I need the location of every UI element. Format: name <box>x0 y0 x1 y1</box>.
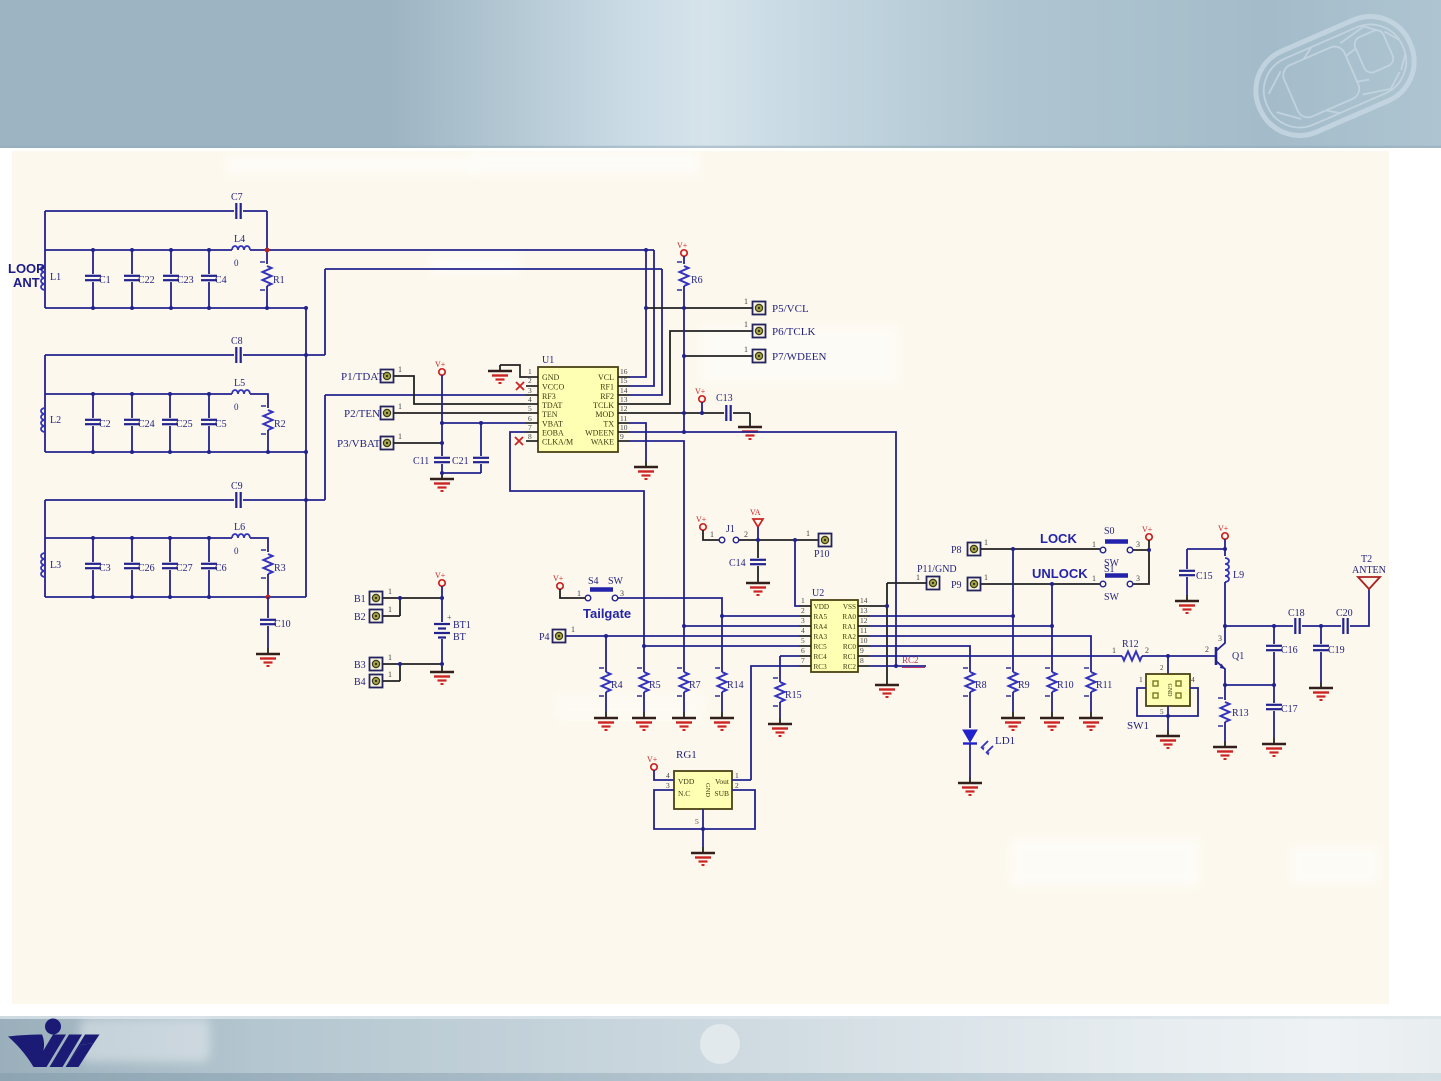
svg-text:Q1: Q1 <box>1232 651 1244 662</box>
svg-text:1: 1 <box>1092 540 1096 549</box>
wire RC1 row to R12 <box>870 655 1122 657</box>
port P10 <box>819 534 832 547</box>
svg-text:C27: C27 <box>176 563 193 574</box>
wire collector row to antenna <box>1225 589 1369 626</box>
capacitor C21 <box>480 423 482 456</box>
power V+ above R6 <box>681 250 687 256</box>
schematic paper <box>12 151 1389 1004</box>
svg-text:2: 2 <box>1205 645 1209 654</box>
wire pin1 GND <box>500 365 526 377</box>
svg-text:VCL: VCL <box>598 373 614 382</box>
capacitor C18 <box>1295 618 1299 634</box>
svg-text:V+: V+ <box>553 574 564 583</box>
svg-text:S1: S1 <box>1104 564 1115 575</box>
svg-text:P5/VCL: P5/VCL <box>772 303 809 315</box>
port P4 <box>553 630 566 643</box>
capacitor C27 <box>169 538 171 562</box>
port B3 <box>370 658 383 671</box>
wire RG1 Vout riser <box>732 779 751 781</box>
ground <box>1309 682 1333 700</box>
svg-text:ANT: ANT <box>13 275 40 290</box>
svg-text:RA2: RA2 <box>842 633 856 641</box>
svg-text:P3/VBAT: P3/VBAT <box>337 438 381 450</box>
svg-text:GND: GND <box>704 783 711 797</box>
wire battery top <box>383 598 442 616</box>
wire RG1 SUB loop <box>703 790 755 829</box>
svg-text:2: 2 <box>801 606 805 615</box>
capacitor C20 <box>1343 618 1347 634</box>
power V+ output <box>1222 533 1228 539</box>
svg-text:VCCO: VCCO <box>542 383 564 392</box>
svg-text:LD1: LD1 <box>995 735 1015 747</box>
port P1/TDAT <box>381 370 394 383</box>
svg-text:R13: R13 <box>1232 708 1249 719</box>
svg-text:C9: C9 <box>231 481 243 492</box>
wire group3 bottom <box>45 596 306 598</box>
wire P1 to pin4 <box>394 376 526 404</box>
svg-text:C11: C11 <box>413 456 429 467</box>
wire C11/C21 join <box>442 472 481 474</box>
power VA <box>753 519 763 527</box>
port P2/TEN <box>381 407 394 420</box>
svg-text:1: 1 <box>528 367 532 376</box>
svg-text:RA4: RA4 <box>814 623 828 631</box>
resistor R9 <box>1006 668 1018 696</box>
inductor L6 <box>232 534 250 538</box>
wire group2 bottom <box>45 451 306 453</box>
svg-text:2: 2 <box>735 781 739 790</box>
svg-text:C6: C6 <box>215 563 227 574</box>
capacitor C4 <box>208 250 210 274</box>
capacitor C7 <box>236 203 240 219</box>
wire group3 top <box>45 499 325 501</box>
svg-text:WAKE: WAKE <box>591 438 614 447</box>
svg-text:RA3: RA3 <box>814 633 828 641</box>
svg-text:3: 3 <box>801 616 805 625</box>
wire VBAT row <box>442 422 526 424</box>
jumper J1 <box>719 537 725 543</box>
footer band <box>0 1016 1441 1081</box>
svg-text:RC0: RC0 <box>843 643 857 651</box>
port P6/TCLK <box>753 325 766 338</box>
svg-text:B1: B1 <box>354 594 366 605</box>
svg-text:9: 9 <box>860 646 864 655</box>
svg-text:C13: C13 <box>716 393 733 404</box>
svg-text:C18: C18 <box>1288 608 1305 619</box>
wire pin16 VCL riser <box>630 250 646 377</box>
resistor R15 <box>779 656 781 682</box>
svg-text:3: 3 <box>666 781 670 790</box>
wire RG1 N.C loop <box>654 790 703 829</box>
svg-text:12: 12 <box>620 404 628 413</box>
svg-text:S4: S4 <box>588 576 599 587</box>
capacitor C24 <box>131 394 133 418</box>
svg-text:5: 5 <box>528 404 532 413</box>
ground <box>1001 712 1025 730</box>
power V+ J1 <box>700 524 706 530</box>
U2 pin stubs <box>799 606 870 666</box>
svg-text:UNLOCK: UNLOCK <box>1032 566 1088 581</box>
ground C13 <box>738 421 762 439</box>
svg-text:1: 1 <box>744 297 748 306</box>
svg-text:L1: L1 <box>50 272 61 283</box>
port B1 <box>370 592 383 605</box>
svg-text:TX: TX <box>603 420 614 429</box>
wire RF2 riser x325 <box>324 269 326 355</box>
svg-text:4: 4 <box>528 395 532 404</box>
wire V+ stem <box>441 375 443 456</box>
svg-text:3: 3 <box>1218 634 1222 643</box>
ground C14 <box>746 577 770 595</box>
svg-text:7: 7 <box>801 656 805 665</box>
wire group1 mid <box>45 249 654 251</box>
capacitor C17 <box>1273 685 1275 703</box>
wire J1 to P10 <box>739 539 818 541</box>
wire VDD riser <box>795 540 799 606</box>
svg-text:R1: R1 <box>273 275 285 286</box>
resistor R8 <box>963 668 975 696</box>
svg-text:3: 3 <box>1136 540 1140 549</box>
svg-text:V+: V+ <box>1218 524 1229 533</box>
node junction red C10 <box>266 595 271 600</box>
wire RC5 row <box>644 645 799 647</box>
switch S0 <box>1100 542 1133 553</box>
wire group2 mid <box>45 394 268 408</box>
svg-text:2: 2 <box>1145 646 1149 655</box>
svg-text:GND: GND <box>542 373 560 382</box>
svg-text:VSS: VSS <box>843 603 856 611</box>
wire RC3 row <box>751 666 799 780</box>
wire P4 to RA3 <box>566 635 799 637</box>
svg-text:C23: C23 <box>177 275 194 286</box>
svg-text:RA5: RA5 <box>814 613 828 621</box>
svg-text:P2/TEN: P2/TEN <box>344 408 380 420</box>
svg-text:C21: C21 <box>452 456 469 467</box>
svg-text:0: 0 <box>234 402 239 412</box>
power V+ above C13 <box>699 396 705 402</box>
svg-text:R14: R14 <box>727 680 744 691</box>
svg-text:TEN: TEN <box>542 410 558 419</box>
svg-text:8: 8 <box>860 656 864 665</box>
svg-text:RC2: RC2 <box>843 663 857 671</box>
ground <box>632 712 656 730</box>
svg-text:C2: C2 <box>99 419 111 430</box>
no-connect pin8 <box>515 437 523 445</box>
svg-text:1: 1 <box>398 402 402 411</box>
port B2 <box>370 610 383 623</box>
svg-text:C17: C17 <box>1281 704 1298 715</box>
capacitor C16 <box>1273 626 1275 644</box>
ground <box>1079 712 1103 730</box>
ground <box>768 718 792 736</box>
inductor L4 <box>232 246 250 250</box>
port P5/VCL <box>753 302 766 315</box>
resistor R4 <box>605 636 607 672</box>
port P8 <box>968 543 981 556</box>
svg-text:1: 1 <box>806 529 810 538</box>
wire R12 to Q1 base <box>1142 655 1215 657</box>
ground U1 pin1 <box>488 365 512 383</box>
svg-text:R3: R3 <box>274 563 286 574</box>
svg-text:L9: L9 <box>1233 570 1244 581</box>
port P9 <box>968 578 981 591</box>
svg-text:1: 1 <box>398 432 402 441</box>
ground <box>1040 712 1064 730</box>
svg-text:B3: B3 <box>354 660 366 671</box>
svg-text:VA: VA <box>750 508 761 517</box>
ground VSS <box>875 679 899 697</box>
svg-text:5: 5 <box>1160 708 1164 716</box>
svg-text:V+: V+ <box>647 755 658 764</box>
svg-text:1: 1 <box>388 653 392 662</box>
svg-text:TDAT: TDAT <box>542 401 563 410</box>
svg-text:14: 14 <box>620 386 628 395</box>
svg-text:RA0: RA0 <box>842 613 856 621</box>
transistor Q1 <box>1215 647 1218 665</box>
resistor R13 <box>1224 685 1226 700</box>
svg-text:8: 8 <box>528 432 532 441</box>
svg-text:1: 1 <box>801 596 805 605</box>
svg-text:C25: C25 <box>176 419 193 430</box>
port B4 <box>370 675 383 688</box>
svg-text:C20: C20 <box>1336 608 1353 619</box>
svg-text:3: 3 <box>620 589 624 598</box>
svg-text:1: 1 <box>1092 574 1096 583</box>
wire RC0 row <box>870 646 970 672</box>
wire RA2 row <box>870 636 1091 672</box>
wire pin15 RF1 riser <box>630 250 654 386</box>
svg-text:SW: SW <box>1104 592 1120 603</box>
svg-text:10: 10 <box>620 423 628 432</box>
car outline icon <box>1242 3 1427 149</box>
capacitor C3 <box>92 538 94 562</box>
wire pin11 TX to ground <box>630 423 646 461</box>
op-amp U1 body <box>538 367 618 452</box>
resistor R1 <box>266 250 268 264</box>
svg-text:1: 1 <box>710 530 714 539</box>
svg-text:1: 1 <box>571 625 575 634</box>
svg-text:C26: C26 <box>138 563 155 574</box>
svg-text:1: 1 <box>984 573 988 582</box>
capacitor C15 <box>1186 549 1188 569</box>
wire P9 to S1 <box>981 583 1100 585</box>
wire long RF2 row y269 <box>325 268 662 270</box>
svg-text:2: 2 <box>744 530 748 539</box>
svg-text:6: 6 <box>801 646 805 655</box>
resistor R11 <box>1084 668 1096 696</box>
svg-text:C15: C15 <box>1196 571 1213 582</box>
svg-text:N.C: N.C <box>678 789 690 798</box>
svg-text:U1: U1 <box>542 355 554 366</box>
wire RG1 GND pin <box>702 809 704 847</box>
svg-text:R15: R15 <box>785 690 802 701</box>
header bottom edge <box>0 146 1441 148</box>
svg-text:+: + <box>447 613 452 622</box>
svg-text:C3: C3 <box>99 563 111 574</box>
svg-text:0: 0 <box>234 258 239 268</box>
footer circle <box>700 1024 740 1064</box>
svg-text:VDD: VDD <box>814 603 830 611</box>
inductor L5 <box>232 390 250 394</box>
svg-text:V+: V+ <box>435 571 446 580</box>
wire S4 to RA5 <box>618 598 722 672</box>
wire inter-group vertical x306 <box>305 308 307 597</box>
capacitor C5 <box>208 394 210 418</box>
capacitor C2 <box>92 394 94 418</box>
svg-text:13: 13 <box>620 395 628 404</box>
svg-text:0: 0 <box>234 546 239 556</box>
resistor R7 <box>683 646 685 672</box>
svg-text:U2: U2 <box>812 588 824 599</box>
svg-text:P6/TCLK: P6/TCLK <box>772 326 815 338</box>
capacitor C23 <box>170 250 172 274</box>
svg-text:RA1: RA1 <box>842 623 856 631</box>
junction dots group2 <box>91 353 308 454</box>
resistor R2 <box>261 406 273 434</box>
inductor L1 <box>41 266 45 290</box>
svg-text:RG1: RG1 <box>676 749 697 761</box>
svg-text:R4: R4 <box>611 680 623 691</box>
port P11/GND <box>927 577 940 590</box>
svg-text:7: 7 <box>528 423 532 432</box>
svg-text:C7: C7 <box>231 192 243 203</box>
svg-text:4: 4 <box>1191 675 1195 684</box>
svg-text:C1: C1 <box>99 275 111 286</box>
wire S0 pin3 to V+ and S1 <box>1133 540 1149 584</box>
svg-text:TCLK: TCLK <box>593 401 614 410</box>
wire RC4 row <box>780 655 799 657</box>
capacitor C13 <box>726 405 730 421</box>
svg-text:Vout: Vout <box>715 777 730 786</box>
svg-text:P11/GND: P11/GND <box>917 564 957 575</box>
resistor R3 <box>261 550 273 578</box>
svg-text:1: 1 <box>1139 675 1143 684</box>
svg-text:R2: R2 <box>274 419 286 430</box>
svg-text:RC5: RC5 <box>814 643 828 651</box>
capacitor C1 <box>92 250 94 274</box>
resistor R6 <box>683 256 685 264</box>
svg-text:RF1: RF1 <box>600 383 614 392</box>
svg-text:Tailgate: Tailgate <box>583 606 631 621</box>
wire pin7 EOBA loop <box>510 432 644 646</box>
power V+ above C11 <box>439 369 445 375</box>
svg-text:R6: R6 <box>691 275 703 286</box>
svg-text:2: 2 <box>1160 664 1164 672</box>
capacitor C22 <box>131 250 133 274</box>
wire P3 row <box>394 442 442 444</box>
svg-text:3: 3 <box>528 386 532 395</box>
power V+ S4 <box>557 583 563 589</box>
port P3/VBAT <box>381 437 394 450</box>
wire P2 to pin5 <box>394 412 526 414</box>
svg-text:11: 11 <box>860 626 867 635</box>
ground TX <box>634 461 658 479</box>
svg-text:WDEEN: WDEEN <box>585 429 614 438</box>
svg-text:C5: C5 <box>215 419 227 430</box>
power V+ RG1 <box>651 764 657 770</box>
wire emitter row <box>1225 684 1274 686</box>
svg-text:V+: V+ <box>695 387 706 396</box>
wire group3 left <box>44 500 46 597</box>
LED LD1 <box>963 730 977 742</box>
svg-text:GND: GND <box>1166 684 1172 698</box>
svg-text:ANTEN: ANTEN <box>1352 565 1386 576</box>
svg-text:1: 1 <box>984 538 988 547</box>
ground RG1 <box>691 847 715 865</box>
svg-text:14: 14 <box>860 596 868 605</box>
capacitor C6 <box>208 538 210 562</box>
resistor R12 <box>1122 652 1142 661</box>
svg-text:V+: V+ <box>1142 525 1153 534</box>
svg-text:V+: V+ <box>435 360 446 369</box>
junction dots U1 right <box>642 248 704 648</box>
ground <box>710 712 734 730</box>
svg-text:C4: C4 <box>215 275 227 286</box>
svg-text:L4: L4 <box>234 234 245 245</box>
capacitor C19 <box>1320 626 1322 644</box>
net RC2 stub <box>870 665 926 667</box>
wire P5 row <box>646 307 752 309</box>
svg-text:C14: C14 <box>729 558 746 569</box>
wire pin13 TCLK riser <box>630 331 752 404</box>
svg-text:B2: B2 <box>354 612 366 623</box>
svg-text:R10: R10 <box>1057 680 1074 691</box>
svg-text:P9: P9 <box>951 580 962 591</box>
svg-text:1: 1 <box>744 345 748 354</box>
logo highlight <box>80 1018 210 1062</box>
svg-text:RF2: RF2 <box>600 392 614 401</box>
wire P8 to S0 <box>981 548 1100 550</box>
svg-text:P7/WDEEN: P7/WDEEN <box>772 351 826 363</box>
no-connect pin2 <box>516 382 524 390</box>
ground LD1 <box>958 777 982 795</box>
svg-text:R9: R9 <box>1018 680 1030 691</box>
wire P7 row <box>684 355 752 357</box>
svg-text:RC4: RC4 <box>814 653 828 661</box>
svg-text:BT: BT <box>453 632 466 643</box>
wire VSS to ground <box>870 605 887 607</box>
junction dots group3 <box>91 498 308 599</box>
svg-text:1: 1 <box>388 587 392 596</box>
svg-text:CLKA/M: CLKA/M <box>542 438 573 447</box>
junction dots <box>440 421 483 475</box>
wire to C15 <box>1187 548 1225 550</box>
wire group3 mid <box>45 538 268 552</box>
svg-text:C24: C24 <box>138 419 155 430</box>
svg-text:1: 1 <box>398 365 402 374</box>
svg-text:6: 6 <box>528 414 532 423</box>
svg-text:R12: R12 <box>1122 639 1139 650</box>
inductor L9 <box>1225 558 1229 582</box>
ground below C10 <box>256 648 280 666</box>
resistor R5 <box>643 646 645 672</box>
svg-text:16: 16 <box>620 367 628 376</box>
junction dots <box>1011 547 1151 628</box>
svg-text:T2: T2 <box>1361 554 1372 565</box>
wire RA1 row <box>870 625 1052 627</box>
svg-text:SW1: SW1 <box>1127 720 1149 732</box>
svg-text:11: 11 <box>620 414 627 423</box>
svg-text:C8: C8 <box>231 336 243 347</box>
svg-text:P10: P10 <box>814 549 830 560</box>
svg-text:VDD: VDD <box>678 777 695 786</box>
svg-text:P4: P4 <box>539 632 550 643</box>
wire pin10 WDEEN long row <box>630 432 896 666</box>
wire RA4 row <box>684 625 799 627</box>
svg-text:1: 1 <box>388 605 392 614</box>
svg-text:EOBA: EOBA <box>542 429 564 438</box>
svg-text:R8: R8 <box>975 680 987 691</box>
